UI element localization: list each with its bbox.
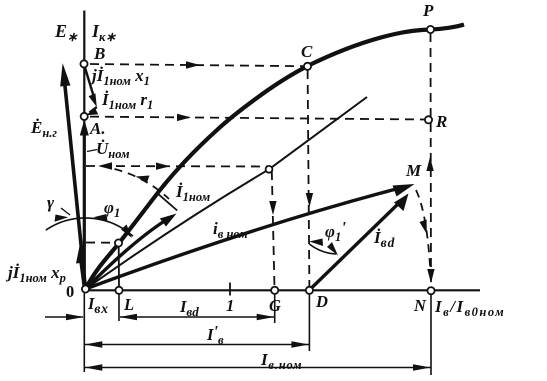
U_ном leader line [87,150,97,152]
dashed vertical from C to D [308,70,310,288]
dimension Iвd line with arrows [119,314,274,321]
node P [427,26,434,33]
vector I_1ном [86,214,177,290]
dimension extension line at origin [83,292,85,372]
svg-text:İ1ном r1: İ1ном r1 [101,90,153,112]
svg-text:1: 1 [226,296,234,315]
dimension extension line at D [308,292,310,351]
label M [405,161,422,180]
dimension Iв.ном line with arrows [85,364,431,371]
label jI1ном x1 [89,66,150,88]
svg-text:Iк∗: Iк∗ [91,21,116,44]
connector curve to I1ном tip [159,195,177,211]
label A. [89,119,106,138]
svg-text:C: C [301,42,313,61]
label I'в [206,322,224,347]
arrow on arc pointing left at axis [94,214,108,221]
svg-text:A.: A. [89,119,106,138]
label jI1ном xp [5,263,66,285]
dimension extension line at G [274,292,276,323]
vertical line from K down to L [118,246,120,288]
dashed line B to C [90,64,303,66]
node at corner circle [266,166,273,173]
svg-text:0: 0 [66,282,74,301]
svg-text:B: B [93,44,105,63]
down arrow on G vertical [269,201,276,215]
arrow on M-N arc [420,220,427,235]
svg-text:N: N [413,296,427,315]
svg-text:M: M [405,161,422,180]
label E н.г [30,118,57,140]
vector I1ном r1 (elbow to A) [86,107,98,115]
right arrow of phi1' arc [327,242,338,256]
label I1ном r1 [101,90,153,112]
arrow on arc end at I1ном line [121,225,132,239]
svg-text:Iвd: Iвd [179,297,199,319]
vertical axis E* [83,11,85,291]
dimension I'в line with arrows [85,341,310,348]
magnetization curve [86,25,465,290]
label G [269,296,281,315]
dashed vertical from P through R to N [430,33,433,288]
left arrow on U-level dashed [98,162,112,169]
label 1 [226,296,234,315]
svg-text:Iв/Iв0ном: Iв/Iв0ном [434,297,505,319]
line to (367,97) through circle node [86,97,368,289]
svg-text:İвd: İвd [373,228,395,250]
vector jI1ном x1 (B to elbow) [85,66,97,107]
svg-text:D: D [315,292,328,311]
dashed arc phi1 rotation (radius 123) [115,169,170,199]
vector I_вd from D to M [309,194,408,291]
svg-text:Iʹв: Iʹв [206,322,224,347]
svg-text:G: G [269,296,281,315]
svg-text:P: P [422,1,434,20]
label gamma [47,193,55,212]
svg-text:Iв.ном: Iв.ном [260,350,302,372]
vector i_в ном to M [86,184,415,289]
arc phi1' at D [309,244,336,254]
label C [301,42,313,61]
node G [271,287,278,294]
node D [306,287,313,294]
label Iвd vector [373,228,395,250]
svg-text:jİ1ном xp: jİ1ном xp [5,263,66,285]
svg-text:İ1ном: İ1ном [175,182,211,204]
label B [93,44,105,63]
label phi1 [104,198,120,220]
arrow on A-R dashed [177,114,191,121]
down arrow near N on vertical [427,269,434,283]
label D [315,292,328,311]
label E* [54,21,78,44]
svg-text:φ1: φ1 [104,198,120,220]
dashed vertical from corner to G [272,171,275,288]
vector E_н.г [60,63,85,289]
label P [422,1,434,20]
left arrow of phi1' arc [309,239,323,247]
label Iк* [91,21,116,44]
svg-text:iв ном: iв ном [213,219,248,241]
node origin 0 [82,285,89,292]
label phi1' [325,218,346,244]
svg-text:φ1ʹ: φ1ʹ [325,218,346,244]
node A [81,113,88,120]
svg-text:E∗: E∗ [54,21,78,44]
svg-text:Iвx: Iвx [87,294,109,316]
label Iвx [87,294,109,316]
label R [435,112,447,131]
svg-text:jİ1ном x1: jİ1ном x1 [89,66,150,88]
label Iв/Iв0ном [434,297,505,319]
node R [425,116,432,123]
arrow on dashed arc [136,176,150,183]
node N [427,287,434,294]
down arrow on C-D vertical [306,193,313,207]
node K on curve [115,239,122,246]
arrow on arc pointing right at E line [55,215,69,222]
tick 1 on horizontal axis [229,283,231,296]
dimension Iвx outside arrow [45,314,84,321]
vector U_ном [80,120,89,290]
node L [115,287,122,294]
label U ном [96,139,130,161]
label N [413,296,427,315]
gamma leader line [61,208,70,215]
svg-text:Ėн.г: Ėн.г [30,118,57,140]
node C [304,63,311,70]
dimension extension line at N [430,293,432,375]
label iв ном [213,219,248,241]
arrow on B-C dashed [186,61,200,68]
vector jI1ном xp [76,246,85,288]
solid arc gamma/phi1 [46,218,133,236]
svg-text:L: L [123,295,134,314]
label L [123,295,134,314]
label I1ном vector [175,182,211,204]
node B [80,60,87,67]
svg-text:U̇ном: U̇ном [96,139,130,161]
horizontal axis Iв/Iв0ном [83,289,480,291]
svg-text:γ: γ [47,193,55,212]
label Iв.ном [260,350,302,372]
dashed line A to R [90,117,425,120]
up arrow on N vertical [426,157,433,171]
right arrow on U-level dashed [156,163,170,170]
svg-text:R: R [435,112,447,131]
label Iвd [179,297,199,319]
dashed arc M to N [416,190,431,283]
dashed tick from axis to curve node K [86,242,115,244]
label 0 [66,282,74,301]
dashed line U level to G corner [86,165,269,168]
dimension extension line at L [118,292,120,321]
